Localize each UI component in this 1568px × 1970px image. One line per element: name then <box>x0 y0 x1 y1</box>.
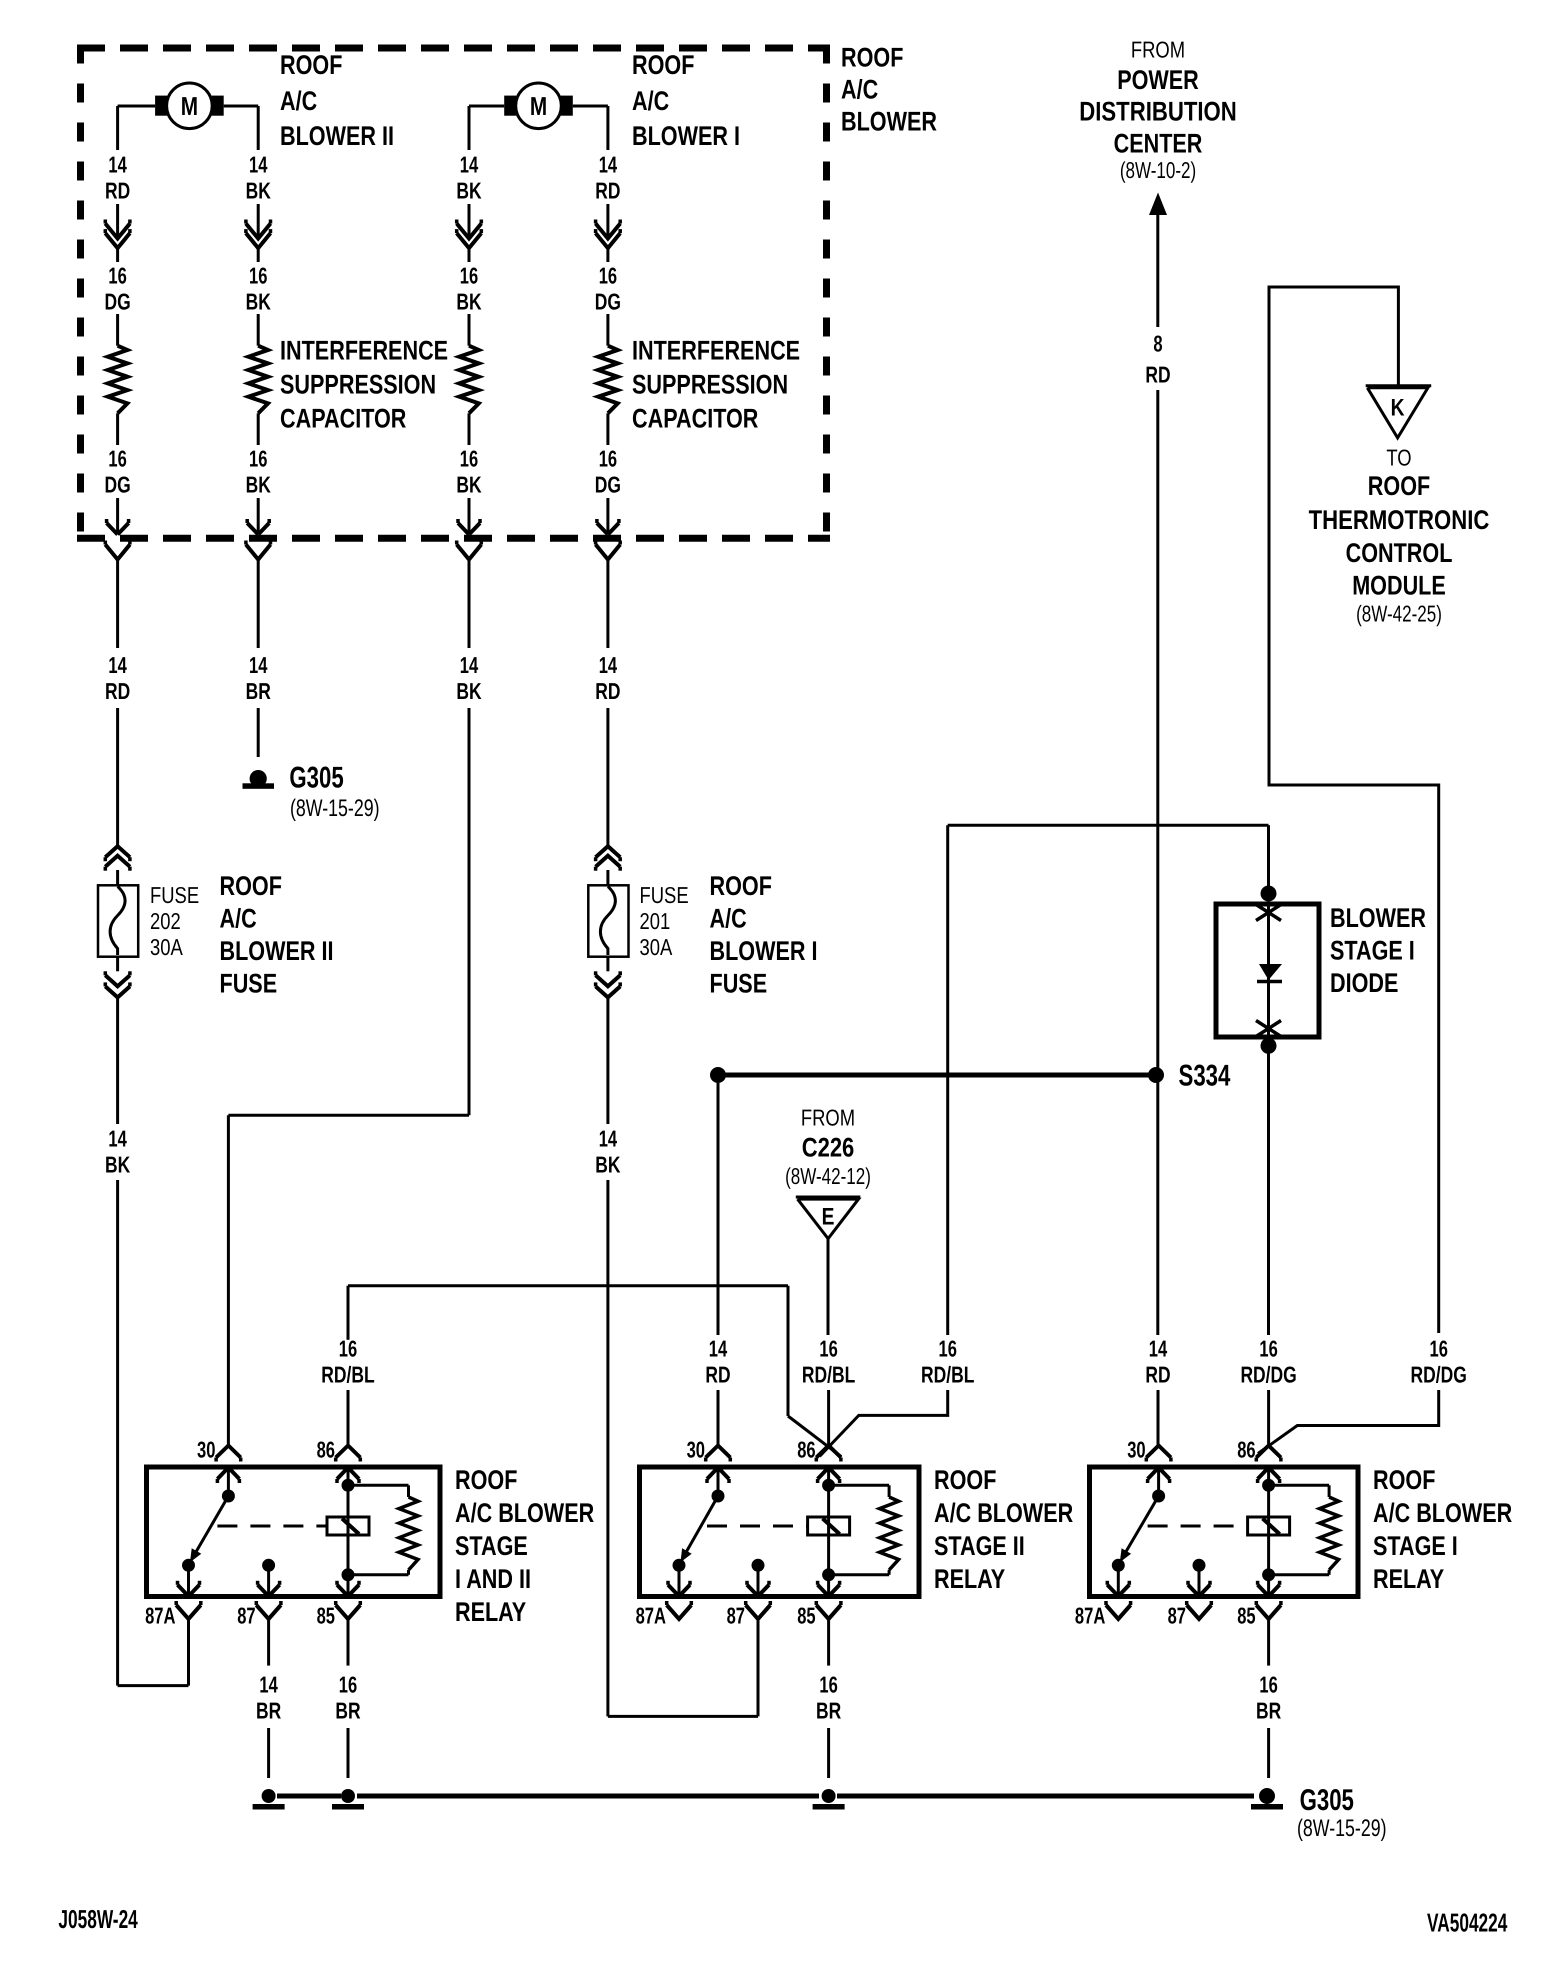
svg-text:RD: RD <box>1145 362 1170 388</box>
svg-text:M: M <box>530 91 547 121</box>
svg-text:ROOF: ROOF <box>220 871 282 901</box>
svg-text:16: 16 <box>460 446 478 472</box>
svg-text:86: 86 <box>797 1437 815 1463</box>
svg-text:16: 16 <box>108 263 126 289</box>
svg-text:8: 8 <box>1153 331 1162 357</box>
svg-text:(8W-42-25): (8W-42-25) <box>1356 601 1442 627</box>
svg-text:A/C: A/C <box>280 86 317 116</box>
svg-text:ROOF: ROOF <box>934 1465 996 1495</box>
svg-text:A/C: A/C <box>220 904 257 934</box>
svg-text:A/C BLOWER: A/C BLOWER <box>455 1498 594 1528</box>
svg-text:FUSE: FUSE <box>220 969 278 999</box>
svg-text:16: 16 <box>108 446 126 472</box>
svg-text:CAPACITOR: CAPACITOR <box>632 404 758 434</box>
svg-text:BLOWER II: BLOWER II <box>220 936 334 966</box>
svg-text:87: 87 <box>1168 1603 1186 1629</box>
svg-text:BK: BK <box>246 472 271 498</box>
svg-text:FUSE: FUSE <box>710 969 768 999</box>
svg-text:16: 16 <box>339 1672 357 1698</box>
svg-text:ROOF: ROOF <box>841 43 903 73</box>
svg-text:BK: BK <box>246 178 271 204</box>
svg-text:30: 30 <box>1127 1437 1145 1463</box>
svg-text:RD: RD <box>105 178 130 204</box>
svg-text:14: 14 <box>460 152 479 178</box>
svg-text:BLOWER: BLOWER <box>1330 903 1426 933</box>
svg-text:C226: C226 <box>802 1133 855 1163</box>
svg-text:S334: S334 <box>1179 1060 1231 1093</box>
svg-text:BLOWER: BLOWER <box>841 107 937 137</box>
svg-text:SUPPRESSION: SUPPRESSION <box>632 370 788 400</box>
svg-text:SUPPRESSION: SUPPRESSION <box>280 370 436 400</box>
svg-text:(8W-15-29): (8W-15-29) <box>1297 1815 1387 1842</box>
svg-text:16: 16 <box>1259 1336 1277 1362</box>
svg-text:30: 30 <box>197 1437 215 1463</box>
svg-text:14: 14 <box>599 152 618 178</box>
svg-text:16: 16 <box>1430 1336 1448 1362</box>
svg-text:87: 87 <box>727 1603 745 1629</box>
svg-text:(8W-10-2): (8W-10-2) <box>1120 157 1196 183</box>
svg-text:ROOF: ROOF <box>455 1465 517 1495</box>
svg-text:TO: TO <box>1386 445 1411 471</box>
svg-text:STAGE I: STAGE I <box>1373 1531 1458 1561</box>
svg-text:87A: 87A <box>1075 1603 1105 1629</box>
svg-text:DG: DG <box>105 289 131 315</box>
svg-text:16: 16 <box>599 446 617 472</box>
svg-text:BK: BK <box>456 289 481 315</box>
svg-text:86: 86 <box>1237 1437 1255 1463</box>
svg-text:30A: 30A <box>150 934 183 960</box>
svg-text:INTERFERENCE: INTERFERENCE <box>632 336 800 366</box>
svg-text:202: 202 <box>150 908 181 934</box>
svg-text:16: 16 <box>1259 1672 1277 1698</box>
svg-text:STAGE II: STAGE II <box>934 1531 1025 1561</box>
svg-text:BK: BK <box>105 1152 130 1178</box>
svg-text:ROOF: ROOF <box>280 50 342 80</box>
svg-text:16: 16 <box>939 1336 957 1362</box>
svg-text:BK: BK <box>456 178 481 204</box>
svg-text:DG: DG <box>595 289 621 315</box>
svg-text:BR: BR <box>246 678 271 704</box>
svg-text:BR: BR <box>335 1698 360 1724</box>
svg-text:BLOWER I: BLOWER I <box>710 936 818 966</box>
svg-text:DG: DG <box>105 472 131 498</box>
svg-text:ROOF: ROOF <box>632 50 694 80</box>
svg-text:M: M <box>181 91 198 121</box>
svg-text:87A: 87A <box>636 1603 666 1629</box>
svg-text:E: E <box>822 1204 835 1231</box>
svg-text:BK: BK <box>595 1152 620 1178</box>
svg-text:86: 86 <box>317 1437 335 1463</box>
svg-text:(8W-15-29): (8W-15-29) <box>290 795 380 822</box>
svg-text:87A: 87A <box>145 1603 175 1629</box>
svg-text:STAGE: STAGE <box>455 1531 528 1561</box>
svg-text:THERMOTRONIC: THERMOTRONIC <box>1309 505 1490 535</box>
svg-text:DG: DG <box>595 472 621 498</box>
svg-text:16: 16 <box>339 1336 357 1362</box>
svg-text:STAGE I: STAGE I <box>1330 936 1415 966</box>
svg-text:RELAY: RELAY <box>934 1564 1005 1594</box>
svg-text:16: 16 <box>599 263 617 289</box>
svg-text:ROOF: ROOF <box>1373 1465 1435 1495</box>
svg-text:G305: G305 <box>289 762 343 795</box>
svg-text:BR: BR <box>1256 1698 1281 1724</box>
svg-text:RD: RD <box>705 1362 730 1388</box>
svg-text:FROM: FROM <box>801 1105 855 1131</box>
svg-text:CONTROL: CONTROL <box>1346 538 1453 568</box>
svg-text:87: 87 <box>237 1603 255 1629</box>
svg-text:A/C: A/C <box>632 86 669 116</box>
svg-text:14: 14 <box>460 652 479 678</box>
svg-text:BK: BK <box>246 289 271 315</box>
svg-text:POWER: POWER <box>1117 65 1199 95</box>
svg-text:RD/DG: RD/DG <box>1411 1362 1467 1388</box>
svg-text:16: 16 <box>460 263 478 289</box>
svg-text:14: 14 <box>599 1126 618 1152</box>
svg-text:RD/BL: RD/BL <box>921 1362 974 1388</box>
svg-text:RD: RD <box>1145 1362 1170 1388</box>
svg-text:16: 16 <box>819 1336 837 1362</box>
svg-text:16: 16 <box>819 1672 837 1698</box>
svg-text:RD/BL: RD/BL <box>802 1362 855 1388</box>
svg-text:A/C BLOWER: A/C BLOWER <box>1373 1498 1512 1528</box>
svg-text:30: 30 <box>687 1437 705 1463</box>
svg-text:14: 14 <box>108 652 127 678</box>
svg-text:MODULE: MODULE <box>1352 571 1446 601</box>
svg-text:BLOWER II: BLOWER II <box>280 121 394 151</box>
svg-text:RD: RD <box>595 178 620 204</box>
svg-text:14: 14 <box>249 652 268 678</box>
svg-text:VA504224: VA504224 <box>1427 1908 1508 1938</box>
svg-text:BK: BK <box>456 678 481 704</box>
svg-text:DISTRIBUTION: DISTRIBUTION <box>1079 97 1237 127</box>
svg-text:14: 14 <box>709 1336 728 1362</box>
svg-text:G305: G305 <box>1300 1784 1354 1817</box>
svg-text:BLOWER I: BLOWER I <box>632 121 740 151</box>
svg-text:CENTER: CENTER <box>1114 128 1203 158</box>
svg-text:I AND II: I AND II <box>455 1564 531 1594</box>
svg-text:85: 85 <box>317 1603 336 1629</box>
svg-text:ROOF: ROOF <box>710 871 772 901</box>
svg-text:BK: BK <box>456 472 481 498</box>
svg-text:DIODE: DIODE <box>1330 968 1398 998</box>
svg-text:14: 14 <box>1149 1336 1168 1362</box>
svg-text:J058W-24: J058W-24 <box>58 1904 138 1934</box>
svg-text:RELAY: RELAY <box>1373 1564 1444 1594</box>
svg-text:BR: BR <box>816 1698 841 1724</box>
svg-text:85: 85 <box>1237 1603 1256 1629</box>
svg-text:A/C: A/C <box>841 75 878 105</box>
svg-text:(8W-42-12): (8W-42-12) <box>785 1163 871 1189</box>
svg-text:RD: RD <box>595 678 620 704</box>
svg-text:14: 14 <box>108 1126 127 1152</box>
svg-text:A/C: A/C <box>710 904 747 934</box>
svg-text:FUSE: FUSE <box>640 882 689 908</box>
svg-text:30A: 30A <box>640 934 673 960</box>
svg-text:RELAY: RELAY <box>455 1597 526 1627</box>
svg-text:RD: RD <box>105 678 130 704</box>
svg-text:201: 201 <box>640 908 671 934</box>
svg-text:RD/BL: RD/BL <box>321 1362 374 1388</box>
svg-text:14: 14 <box>108 152 127 178</box>
svg-text:FROM: FROM <box>1131 37 1185 63</box>
svg-text:16: 16 <box>249 263 267 289</box>
svg-text:85: 85 <box>797 1603 816 1629</box>
svg-text:ROOF: ROOF <box>1368 471 1430 501</box>
svg-text:A/C BLOWER: A/C BLOWER <box>934 1498 1073 1528</box>
svg-text:BR: BR <box>256 1698 281 1724</box>
svg-text:FUSE: FUSE <box>150 882 199 908</box>
svg-text:INTERFERENCE: INTERFERENCE <box>280 336 448 366</box>
svg-text:K: K <box>1391 395 1405 422</box>
svg-text:14: 14 <box>249 152 268 178</box>
svg-text:RD/DG: RD/DG <box>1240 1362 1296 1388</box>
svg-text:14: 14 <box>259 1672 278 1698</box>
svg-text:CAPACITOR: CAPACITOR <box>280 404 406 434</box>
svg-text:14: 14 <box>599 652 618 678</box>
svg-text:16: 16 <box>249 446 267 472</box>
